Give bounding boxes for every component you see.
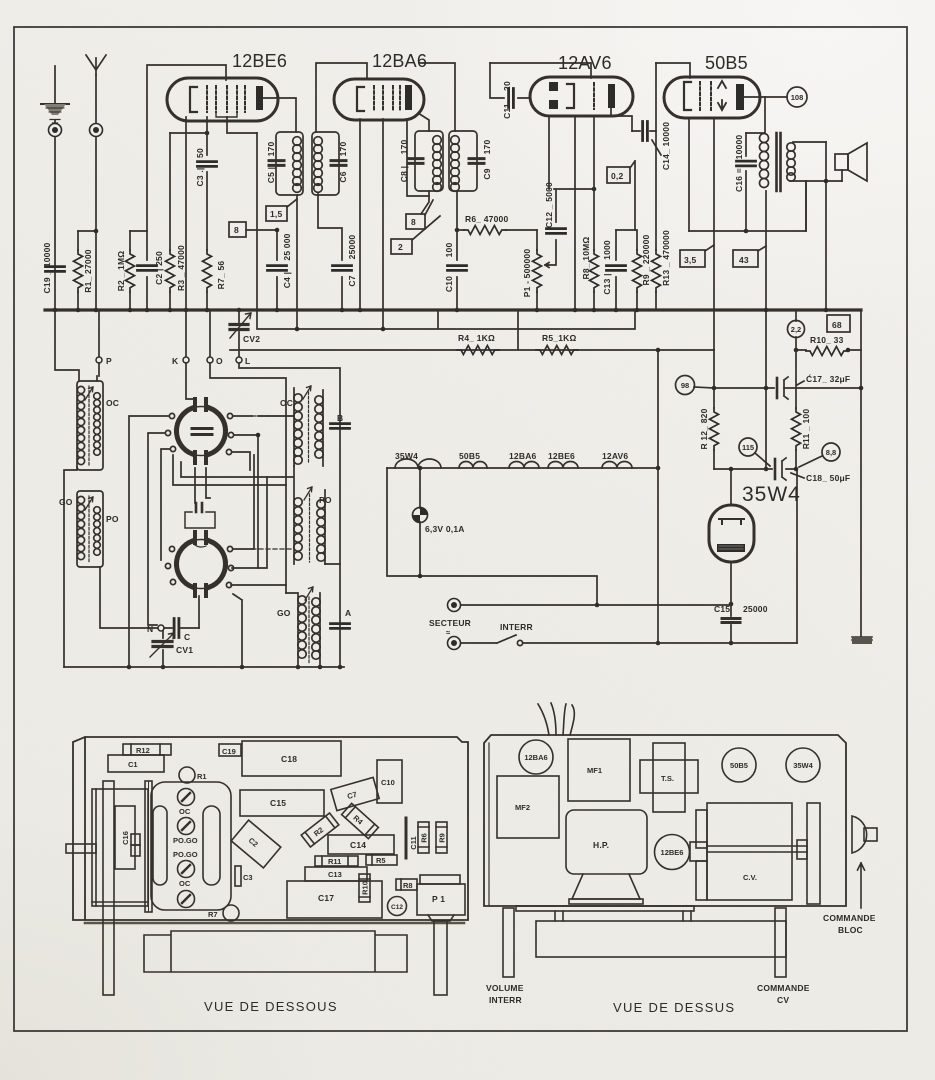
part C18: [242, 741, 341, 776]
wire R3 top tie: [170, 132, 207, 134]
part P1: [417, 875, 465, 921]
svg-text:VOLUME: VOLUME: [486, 983, 524, 993]
IF transformer box C9: [449, 131, 492, 191]
svg-text:R5: R5: [376, 856, 386, 865]
box label 0,2: [607, 161, 635, 230]
part C13b: [305, 867, 367, 881]
wire P to coil box: [55, 310, 99, 381]
heater humps: [395, 459, 632, 468]
ground symbol: [41, 103, 69, 105]
shaft plate: [145, 781, 152, 912]
wires rotor1 right: [232, 416, 294, 568]
speaker HP: [566, 810, 647, 904]
svg-text:R5_1KΩ: R5_1KΩ: [542, 333, 576, 343]
capacitor C15: [714, 562, 768, 645]
svg-text:20: 20: [502, 81, 512, 91]
svg-text:1000: 1000: [602, 240, 612, 260]
top rail B: [316, 63, 455, 132]
svg-text:C2: C2: [247, 836, 260, 849]
circle 115: [739, 438, 770, 466]
svg-text:C19 _ 10000: C19 _ 10000: [42, 242, 52, 293]
svg-text:Ć17_ 32μF: Ć17_ 32μF: [806, 373, 850, 384]
tray: [144, 931, 407, 972]
svg-text:R6: R6: [420, 833, 429, 843]
left block rail: [64, 467, 77, 667]
resistor R11: [792, 350, 812, 469]
svg-text:VUE DE DESSUS: VUE DE DESSUS: [613, 1000, 735, 1015]
top rail D: [656, 63, 690, 78]
left assembly: [66, 789, 148, 906]
bus junctions: [94, 308, 99, 313]
svg-text:R1: R1: [197, 772, 207, 781]
arrow commande bloc: [858, 863, 865, 908]
switch rotor 2: [165, 532, 233, 596]
circle 8,8: [799, 443, 840, 467]
capacitor C11: [490, 63, 530, 119]
svg-text:INTERR: INTERR: [500, 622, 533, 632]
wire 12BA6 plate: [418, 113, 429, 131]
cathode line: [689, 181, 806, 231]
svg-text:R12: R12: [136, 746, 150, 755]
coil stack PO right: [294, 466, 340, 564]
svg-text:2,2: 2,2: [791, 325, 801, 334]
wires O drop: [210, 363, 286, 593]
variable capacitor CV2: [230, 311, 260, 357]
capacitor C13: [602, 230, 626, 312]
svg-text:170: 170: [399, 140, 409, 155]
potentiometer P1: [522, 230, 549, 312]
output transformer primary: [746, 97, 769, 188]
wires rotor2 right: [231, 455, 286, 667]
svg-text:MF1: MF1: [587, 766, 602, 775]
ground lead: [54, 66, 56, 310]
svg-text:INTERR: INTERR: [489, 995, 522, 1005]
pilot lamp: [413, 508, 428, 523]
svg-text:8: 8: [234, 225, 239, 235]
svg-text:CV: CV: [777, 995, 789, 1005]
coupling assembly: [185, 468, 215, 628]
capacitor C2: [138, 231, 165, 312]
part C19: [219, 744, 241, 756]
svg-text:C5 |: C5 |: [266, 167, 276, 183]
svg-text:VUE DE DESSOUS: VUE DE DESSOUS: [204, 999, 338, 1014]
svg-text:C18: C18: [281, 754, 297, 764]
svg-text:R10: R10: [361, 881, 370, 895]
box label 3,5: [680, 245, 714, 267]
svg-text:R6_ 47000: R6_ 47000: [465, 214, 508, 224]
wire 12AV6 plate: [611, 108, 632, 131]
svg-text:115: 115: [742, 443, 754, 452]
resistor R10: [794, 335, 861, 356]
svg-text:C: C: [184, 632, 190, 642]
coil box GO PO left: [77, 491, 103, 567]
svg-text:12BE6: 12BE6: [548, 451, 575, 461]
part C3: [235, 866, 253, 886]
switch plate: [151, 782, 231, 910]
svg-text:H.P.: H.P.: [593, 840, 609, 850]
svg-text:R2 _ 1MΩ: R2 _ 1MΩ: [116, 251, 126, 292]
sub-rail B+: [257, 311, 635, 329]
wire 12BE6 plate: [263, 98, 296, 132]
svg-text:PO: PO: [106, 514, 119, 524]
svg-text:C11: C11: [409, 836, 418, 849]
svg-text:C6: C6: [338, 171, 348, 182]
IF transformer box C5: [266, 132, 303, 195]
svg-text:C7: C7: [347, 275, 357, 286]
svg-text:R 12_ 820: R 12_ 820: [699, 408, 709, 449]
part R12: [123, 744, 171, 755]
wires rotor1 left: [129, 416, 170, 667]
svg-text:C18_ 50μF: C18_ 50μF: [806, 473, 850, 483]
screw PO.GO 2: [173, 850, 198, 878]
svg-text:12BE6: 12BE6: [232, 51, 287, 71]
board dessous outline: [73, 737, 468, 920]
node P: [96, 310, 112, 366]
resistor R9: [616, 230, 651, 312]
mains line top: [461, 604, 731, 606]
wire 12AV6 diode plates: [549, 116, 575, 310]
part R6b: [418, 822, 429, 853]
block bottom rail: [64, 666, 344, 668]
svg-text:R4_ 1KΩ: R4_ 1KΩ: [458, 333, 495, 343]
svg-text:PO: PO: [319, 495, 332, 505]
svg-text:12BA6: 12BA6: [509, 451, 537, 461]
svg-text:R7_ 56: R7_ 56: [216, 261, 226, 290]
antenna jack: [90, 124, 103, 137]
wires bundle: [538, 703, 574, 735]
wire 35W4 top: [730, 469, 732, 505]
paper noise: [0, 0, 1, 1]
svg-text:50B5: 50B5: [730, 761, 748, 770]
svg-text:C9: C9: [482, 168, 492, 179]
svg-text:8: 8: [411, 217, 416, 227]
svg-text:OC: OC: [179, 807, 191, 816]
svg-text:R11: R11: [328, 857, 341, 866]
part R4b: [342, 803, 379, 838]
svg-text:R1_ 27000: R1_ 27000: [83, 249, 93, 292]
svg-text:C4 |: C4 |: [282, 272, 292, 288]
svg-text:C8 |: C8 |: [399, 166, 409, 182]
svg-text:R11 _ 100: R11 _ 100: [801, 409, 811, 450]
svg-text:CV2: CV2: [243, 334, 260, 344]
svg-text:R3 _ 47000: R3 _ 47000: [176, 245, 186, 291]
tube circle 50B5: [722, 748, 756, 782]
box label 2: [391, 216, 440, 254]
svg-text:O: O: [216, 356, 223, 366]
node N: [147, 624, 164, 634]
svg-text:C7: C7: [346, 790, 358, 801]
chassis bus: [45, 308, 861, 311]
antenna lead: [95, 75, 97, 310]
box label 43: [733, 246, 766, 267]
heater line: [387, 467, 658, 469]
svg-text:C12: C12: [391, 904, 403, 911]
box label 68: [827, 315, 850, 332]
svg-text:108: 108: [791, 93, 804, 102]
svg-text:C17: C17: [318, 893, 334, 903]
ground jack: [49, 124, 62, 137]
heater return wires: [387, 468, 597, 605]
resistor R2: [116, 231, 147, 312]
rotor interconnect: [173, 455, 293, 485]
part R2b: [301, 813, 339, 847]
svg-text:P1 - 500000: P1 - 500000: [522, 249, 532, 298]
variable capacitor CV1: [150, 631, 193, 667]
IF transformer box C8: [399, 131, 443, 191]
part R10b: [359, 874, 370, 902]
can MF1: [568, 739, 630, 801]
tube circle 12BE6: [655, 835, 690, 870]
svg-text:C2 | 250: C2 | 250: [154, 251, 164, 285]
box2 bottom wire: [100, 567, 157, 628]
part R9b: [436, 822, 447, 853]
node O: [207, 310, 223, 366]
resistor R7: [203, 250, 227, 312]
tuning capacitor CV: [690, 803, 792, 900]
svg-text:R8: R8: [403, 881, 413, 890]
svg-text:COMMANDE: COMMANDE: [823, 913, 876, 923]
svg-text:GO: GO: [59, 497, 73, 507]
speaker: [835, 143, 867, 181]
antenna symbol: [86, 55, 106, 75]
capacitor C17: [712, 373, 864, 399]
part R5b: [366, 855, 397, 865]
part C15: [240, 790, 324, 816]
capacitor C10: [444, 191, 467, 312]
svg-text:C.V.: C.V.: [743, 873, 757, 882]
svg-text:C3 .|: C3 .|: [195, 168, 205, 187]
svg-text:C13: C13: [328, 870, 342, 879]
svg-text:K: K: [172, 356, 179, 366]
svg-text:C10: C10: [444, 276, 454, 292]
svg-text:P 1: P 1: [432, 894, 445, 904]
part C12b: [388, 897, 407, 916]
part C10: [377, 760, 402, 803]
svg-text:OC: OC: [179, 879, 191, 888]
capacitor C14: [632, 122, 671, 171]
svg-text:0,2: 0,2: [611, 171, 623, 181]
svg-text:SECTEUR: SECTEUR: [429, 618, 471, 628]
svg-text:50: 50: [195, 148, 205, 158]
output transformer secondary: [787, 142, 842, 181]
tube 50B5: [664, 77, 760, 118]
svg-text:T.S.: T.S.: [661, 774, 674, 783]
tube 12BA6: [334, 79, 424, 120]
top rail C: [490, 63, 591, 78]
base plate: [516, 906, 694, 911]
svg-text:A: A: [345, 608, 351, 618]
right rail: [860, 311, 862, 637]
wires rotor1 k: [186, 363, 195, 399]
circle 98: [676, 376, 715, 395]
svg-text:≈: ≈: [446, 628, 450, 637]
svg-text:C11: C11: [502, 103, 512, 119]
chassis dessus outline: [484, 735, 846, 906]
svg-text:2: 2: [398, 242, 403, 252]
svg-text:1,5: 1,5: [270, 209, 282, 219]
svg-text:C16: C16: [121, 831, 130, 845]
coil box OC left: [77, 381, 103, 470]
part R7: [208, 905, 239, 921]
AVC line: [230, 329, 714, 350]
legs: [555, 911, 691, 921]
svg-text:50B5: 50B5: [459, 451, 480, 461]
svg-text:OC: OC: [280, 398, 293, 408]
svg-text:PO.GO: PO.GO: [173, 836, 198, 845]
svg-text:R10_ 33: R10_ 33: [810, 335, 844, 345]
shaft rod P1: [434, 921, 447, 995]
resistor R5: [536, 333, 578, 355]
wire grid stub: [227, 117, 257, 133]
svg-text:GO: GO: [277, 608, 291, 618]
svg-text:R7: R7: [208, 910, 218, 919]
wire 12BE6 cathode: [185, 117, 187, 310]
secteur jack bottom: [448, 637, 461, 650]
svg-text:25000: 25000: [347, 235, 357, 260]
part C2: [231, 820, 281, 868]
box label 8: [229, 222, 277, 237]
resistor R12: [699, 350, 719, 469]
wire 50B5 drop: [657, 350, 659, 643]
svg-text:68: 68: [832, 320, 842, 330]
svg-text:PO.GO: PO.GO: [173, 850, 198, 859]
switch rotor 1: [165, 399, 233, 463]
wires L drop: [239, 363, 340, 667]
svg-text:170: 170: [482, 140, 492, 155]
svg-text:8,8: 8,8: [826, 448, 836, 457]
capacitor C16: [734, 133, 756, 231]
wire speaker return: [825, 142, 827, 310]
svg-text:12BA6: 12BA6: [524, 753, 547, 762]
svg-text:C14_ 10000: C14_ 10000: [661, 122, 671, 170]
part R8b: [396, 879, 417, 890]
svg-text:C15: C15: [270, 798, 286, 808]
svg-text:25 000: 25 000: [282, 233, 292, 260]
screw OC top: [178, 789, 195, 817]
tube circle 35W4: [786, 748, 820, 782]
wire screen column: [256, 133, 258, 310]
svg-text:C16 =: C16 =: [734, 168, 744, 192]
svg-text:35W4: 35W4: [742, 483, 801, 506]
svg-text:L: L: [245, 356, 250, 366]
svg-text:R9 _ 220000: R9 _ 220000: [641, 234, 651, 285]
wire B+ riser: [765, 191, 767, 469]
coil stack GO right: [286, 587, 320, 667]
resistor R6: [455, 214, 537, 235]
svg-text:C3: C3: [243, 873, 253, 882]
svg-text:C10: C10: [381, 778, 395, 787]
svg-text:C1: C1: [128, 760, 138, 769]
can MF2: [497, 776, 559, 838]
part C11b: [406, 818, 418, 858]
wire C8 bottom: [421, 191, 429, 214]
capacitor C19: [42, 242, 65, 293]
top rail A: [147, 65, 226, 231]
svg-text:50B5: 50B5: [705, 53, 748, 73]
resistor R4: [457, 333, 499, 355]
wire secondary to cathode: [805, 181, 807, 231]
svg-text:C14: C14: [350, 840, 366, 850]
capacitor C12: [544, 182, 596, 265]
resistor R3: [166, 133, 187, 312]
circle 2,2: [788, 311, 805, 350]
svg-text:MF2: MF2: [515, 803, 530, 812]
svg-text:10000: 10000: [734, 135, 744, 160]
svg-text:98: 98: [681, 381, 689, 390]
capacitor B: [331, 413, 350, 428]
svg-text:P: P: [106, 356, 112, 366]
circle 108: [744, 87, 807, 107]
resistor R8: [581, 116, 599, 312]
capacitor C3: [195, 117, 217, 250]
svg-text:COMMANDE: COMMANDE: [757, 983, 810, 993]
svg-text:12BA6: 12BA6: [372, 51, 427, 71]
screw PO.GO 1: [173, 818, 198, 846]
tube 12BE6: [167, 78, 278, 121]
capacitor C18: [775, 458, 850, 483]
tube circle 12BA6: [519, 740, 553, 774]
svg-text:100: 100: [444, 243, 454, 258]
resistor R1: [74, 229, 99, 313]
svg-text:43: 43: [739, 255, 749, 265]
svg-text:12AV6: 12AV6: [558, 53, 612, 73]
svg-text:C13 |: C13 |: [602, 273, 612, 294]
capacitor C7: [318, 194, 357, 312]
svg-text:170: 170: [338, 142, 348, 157]
part C17b: [287, 881, 382, 918]
wire 12BA6 pins: [360, 119, 429, 329]
switch interr: [461, 635, 797, 646]
svg-text:12AV6: 12AV6: [602, 451, 628, 461]
tray dessus: [536, 921, 786, 957]
stick commande cv: [775, 908, 786, 977]
coil stack OC right: [294, 386, 352, 466]
part C1: [108, 755, 164, 772]
svg-text:B: B: [337, 413, 343, 423]
secteur jack top: [448, 599, 461, 612]
svg-text:35W4: 35W4: [793, 761, 813, 770]
stick volume: [503, 908, 514, 977]
IF transformer box C6: [312, 132, 348, 195]
screw OC bottom: [178, 879, 195, 908]
svg-text:25000: 25000: [743, 604, 768, 614]
svg-text:6,3V 0,1A: 6,3V 0,1A: [425, 524, 465, 534]
transformer core: [777, 133, 781, 191]
capacitor C osc: [164, 619, 199, 643]
svg-text:170: 170: [266, 142, 276, 157]
knob bloc: [852, 816, 877, 853]
box label 1,5: [266, 199, 297, 221]
svg-text:CV1: CV1: [176, 645, 193, 655]
box label 8b: [406, 200, 433, 229]
dashed link wires: [252, 416, 294, 549]
tube 12AV6: [530, 77, 633, 116]
part C14: [328, 835, 394, 854]
capacitor C4: [268, 228, 293, 313]
dial plate: [797, 803, 820, 904]
part R11b: [315, 856, 358, 866]
wire IF1 secondary bottom: [296, 195, 298, 329]
shaft rod left: [103, 781, 114, 995]
tube 35W4: [709, 505, 754, 562]
svg-text:OC: OC: [106, 398, 119, 408]
ground right: [852, 637, 872, 643]
cathode filter line: [714, 469, 797, 643]
svg-text:C19: C19: [222, 747, 236, 756]
resistor R13: [652, 63, 672, 310]
wire 50B5 cathode: [689, 118, 714, 350]
svg-text:3,5: 3,5: [684, 255, 696, 265]
